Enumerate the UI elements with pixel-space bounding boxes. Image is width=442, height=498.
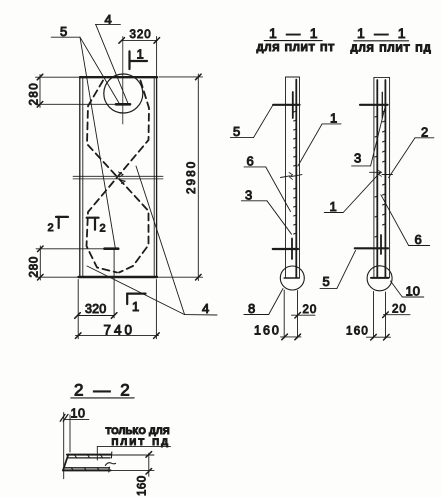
slab outline right section: [374, 76, 390, 78]
svg-text:1: 1: [137, 47, 144, 62]
bottom loop bar left section: [273, 248, 298, 250]
plate bottom edge: [79, 276, 158, 278]
break mark right section: [370, 171, 381, 173]
label 4 top (plan): [95, 24, 128, 103]
svg-text:6: 6: [415, 232, 422, 247]
svg-text:20: 20: [303, 304, 318, 316]
mesh dashed outline left-to-right strand: [87, 81, 149, 273]
svg-text:20: 20: [392, 304, 407, 316]
dim 20 left section: [284, 290, 315, 338]
rebar ends bar right section: [371, 277, 389, 279]
detail circle left section: [280, 266, 304, 290]
mesh dashed outline right-to-left strand: [87, 81, 150, 273]
mid break line upper: [73, 175, 163, 177]
label 1 left section: [322, 123, 341, 125]
svg-text:1: 1: [132, 299, 139, 314]
label 5 (plan): [51, 37, 119, 247]
vertical centre line top: [122, 37, 124, 125]
label 6 left section: [244, 166, 266, 168]
stirrup ticks left section: [294, 111, 297, 234]
lifting hole circle: [104, 74, 143, 113]
label 5 left section: [230, 137, 253, 139]
svg-text:320: 320: [130, 29, 152, 41]
plate right edge outer: [156, 78, 158, 277]
bottom loop bar right section: [355, 247, 388, 249]
svg-text:160: 160: [254, 324, 281, 338]
svg-text:8: 8: [248, 301, 255, 316]
dim 160 right section: [367, 334, 391, 340]
section mark 1 bottom: [127, 293, 145, 295]
label 3 right section: [352, 165, 371, 167]
slab outline left section: [286, 76, 300, 78]
section mark 2 left: [56, 216, 68, 218]
svg-text:3: 3: [354, 151, 361, 166]
svg-text:5: 5: [323, 274, 330, 289]
slab 2-2 bottom extension: [111, 469, 155, 471]
svg-text:2: 2: [48, 222, 54, 234]
dimension 2980 right: [159, 74, 203, 281]
slab bottom end left section: [284, 277, 299, 279]
svg-text:280: 280: [29, 256, 41, 278]
dimension 280 top-left: [36, 74, 117, 107]
plate left edge outer: [79, 78, 81, 277]
dim 10: [60, 413, 89, 479]
svg-text:3: 3: [245, 188, 252, 203]
svg-text:ТОЛЬКО ДЛЯ: ТОЛЬКО ДЛЯ: [106, 426, 170, 437]
rebar right section right bar: [384, 80, 386, 277]
svg-text:1: 1: [330, 199, 337, 214]
slab 2-2 bottom band upper line: [64, 467, 109, 469]
top loop centre dash: [116, 103, 130, 106]
svg-text:5: 5: [233, 124, 240, 139]
svg-text:160: 160: [137, 475, 149, 496]
dimension 320 top: [119, 37, 160, 77]
svg-text:10: 10: [406, 284, 420, 299]
dim 160 section 2-2: [146, 452, 152, 477]
svg-text:4: 4: [105, 12, 112, 27]
svg-text:280: 280: [29, 82, 41, 106]
label 10 right section: [402, 296, 424, 298]
slab 2-2 top band upper line: [67, 454, 111, 456]
slab 2-2 right break: [105, 452, 115, 472]
dim 160 left section: [281, 334, 302, 340]
svg-text:160: 160: [346, 326, 369, 338]
label 4 bottom (plan): [87, 166, 217, 315]
label 8 left section: [244, 314, 269, 316]
top loop bar left section: [273, 104, 299, 106]
section mark 2 right: [87, 217, 99, 219]
mid break squiggle: [119, 172, 124, 177]
svg-text:1 — 1: 1 — 1: [357, 25, 408, 41]
slab 2-2 left slant: [63, 455, 68, 471]
svg-text:ДЛЯ ПЛИТ ПД: ДЛЯ ПЛИТ ПД: [351, 44, 432, 55]
svg-text:1 — 1: 1 — 1: [269, 25, 320, 41]
label 5 right section: [320, 287, 337, 289]
note leader: [97, 446, 170, 448]
mid break line lower: [73, 178, 163, 180]
rebar right section left bar: [376, 80, 378, 277]
svg-text:320: 320: [85, 302, 106, 316]
label 2 right section: [415, 137, 434, 139]
svg-text:6: 6: [247, 154, 254, 169]
dimension 320 bottom: [75, 250, 117, 318]
svg-text:ДЛЯ ПЛИТ ПТ: ДЛЯ ПЛИТ ПТ: [257, 43, 335, 54]
dimension 280 bottom-left: [36, 246, 104, 280]
svg-text:740: 740: [104, 323, 136, 338]
dimension 740 bottom: [75, 280, 159, 339]
svg-text:5: 5: [60, 24, 67, 39]
slab 2-2 bottom band lower line: [63, 469, 111, 471]
rebar left section: [295, 80, 297, 278]
break mark left section: [281, 176, 291, 178]
slab 2-2 top extension: [111, 454, 154, 456]
stirrup ticks right section: [375, 111, 385, 237]
svg-text:4: 4: [202, 301, 209, 316]
dim 20 right section: [374, 292, 411, 339]
label 6 right section: [409, 245, 430, 247]
label 1 right section: [324, 212, 343, 214]
slab 2-2 top band lower line: [68, 457, 110, 459]
top loop bar right section: [360, 104, 388, 106]
label 3 left section: [241, 200, 267, 202]
svg-text:2980: 2980: [186, 160, 198, 194]
plate left edge inner: [82, 78, 84, 277]
svg-text:10: 10: [71, 407, 86, 421]
svg-text:2: 2: [421, 125, 428, 140]
slab 2-2 band ticks: [71, 454, 103, 470]
plate top edge: [80, 76, 157, 78]
svg-text:1: 1: [330, 111, 337, 126]
detail circle right section: [367, 266, 392, 291]
svg-text:2: 2: [100, 223, 106, 235]
plate right edge inner: [153, 78, 155, 277]
svg-text:2 — 2: 2 — 2: [74, 381, 132, 400]
bottom loop centre dash: [105, 247, 119, 250]
section mark 1 top: [128, 51, 130, 69]
